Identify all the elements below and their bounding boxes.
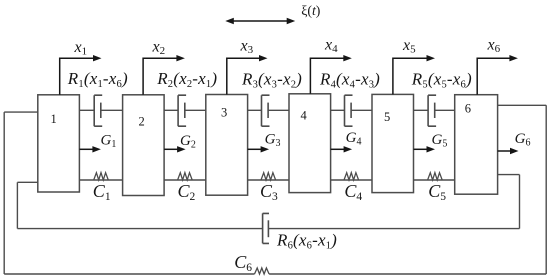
wire outer loop bottom (left of C6): [4, 273, 254, 275]
svg-text:G4: G4: [346, 130, 362, 148]
svg-text:1: 1: [51, 112, 57, 126]
excitation double arrow: [225, 18, 295, 24]
svg-text:R3(x3-x2): R3(x3-x2): [241, 70, 302, 91]
arrow G2: [164, 146, 186, 152]
svg-text:C6: C6: [234, 252, 252, 274]
displacement arrow x3: [227, 55, 268, 95]
resistor C6 (spring): [255, 268, 270, 274]
wire C-row 1: [79, 179, 122, 181]
svg-text:R6(x6-x1): R6(x6-x1): [276, 231, 337, 252]
block mass 6: [455, 95, 498, 195]
svg-text:x6: x6: [487, 37, 501, 56]
resistor C1 (spring): [94, 173, 109, 180]
arrow G6: [498, 148, 519, 154]
displacement arrow x1: [60, 55, 102, 95]
wire damper-row left 1: [79, 109, 94, 111]
damper R1: [94, 95, 102, 126]
wire damper-row left 3: [248, 109, 262, 111]
svg-text:G1: G1: [101, 132, 117, 150]
svg-text:x3: x3: [240, 38, 254, 57]
displacement arrow x5: [393, 55, 435, 94]
damper R4: [345, 95, 353, 126]
block mass 1: [38, 95, 80, 192]
svg-text:x2: x2: [152, 39, 166, 58]
damper R5: [428, 95, 436, 126]
svg-text:C3: C3: [260, 181, 278, 203]
wire outer loop left vertical: [3, 112, 5, 274]
arrow G3: [248, 146, 270, 152]
wire R6-loop right vertical: [519, 175, 521, 229]
block mass 5: [372, 94, 414, 192]
displacement arrow x2: [143, 55, 185, 95]
wire damper-row left 2: [164, 109, 178, 111]
wire damper-row right 1: [101, 109, 123, 111]
svg-text:3: 3: [221, 106, 227, 120]
block mass 4: [289, 94, 331, 193]
svg-text:C1: C1: [93, 181, 111, 203]
damper R2: [178, 95, 186, 126]
svg-text:x5: x5: [402, 37, 416, 56]
svg-text:x1: x1: [74, 39, 88, 58]
svg-text:6: 6: [465, 102, 471, 116]
svg-text:ξ(t): ξ(t): [301, 3, 320, 19]
svg-text:5: 5: [384, 110, 390, 124]
block mass 3: [206, 95, 248, 196]
block mass 2: [123, 95, 165, 196]
svg-text:R2(x2-x1): R2(x2-x1): [156, 69, 217, 90]
wire outer loop top-left: [4, 111, 38, 113]
svg-text:C4: C4: [344, 181, 362, 203]
svg-text:C5: C5: [428, 181, 446, 203]
svg-text:2: 2: [139, 115, 145, 129]
resistor C2 (spring): [178, 173, 193, 180]
displacement arrow x4: [310, 55, 351, 94]
svg-text:R1(x1-x6): R1(x1-x6): [67, 69, 128, 90]
wire C-row 3: [248, 179, 289, 181]
svg-text:G6: G6: [515, 131, 531, 149]
wire R6-loop stub from block 1: [17, 181, 37, 183]
resistor C5 (spring): [428, 173, 443, 180]
svg-text:x4: x4: [324, 37, 338, 56]
wire C-row 2: [164, 179, 206, 181]
arrow G1: [79, 146, 101, 152]
arrow G4: [331, 146, 353, 152]
wire outer loop right vertical: [545, 105, 547, 274]
wire damper-row right 3: [268, 109, 289, 111]
wire R6-loop horizontal right of damper: [268, 228, 519, 230]
damper R3: [262, 95, 270, 126]
wire C-row 5: [414, 179, 455, 181]
wire C-row 4: [331, 179, 372, 181]
displacement arrow x6: [477, 55, 518, 95]
damper R6: [263, 213, 269, 243]
svg-text:R4(x4-x3): R4(x4-x3): [319, 70, 380, 91]
svg-text:R5(x5-x6): R5(x5-x6): [411, 70, 472, 91]
wire R6-loop stub to block 6: [498, 174, 520, 176]
svg-text:C2: C2: [178, 181, 196, 203]
wire damper-row right 4: [351, 109, 372, 111]
wire damper-row right 2: [185, 109, 206, 111]
wire R6-loop left vertical: [16, 182, 18, 228]
resistor C3 (spring): [261, 173, 276, 180]
arrow G5: [414, 146, 436, 152]
svg-text:G3: G3: [265, 131, 281, 149]
svg-text:4: 4: [301, 109, 308, 123]
svg-text:G2: G2: [180, 133, 196, 151]
wire R6-loop horizontal left of damper: [17, 228, 262, 230]
wire damper-row right 5: [435, 109, 455, 111]
wire outer loop bottom (right of C6): [269, 273, 546, 275]
resistor C4 (spring): [344, 173, 359, 180]
wire damper-row left 4: [331, 109, 345, 111]
wire damper-row left 5: [414, 109, 429, 111]
svg-text:G5: G5: [432, 132, 448, 150]
wire outer loop top-right: [498, 104, 547, 106]
